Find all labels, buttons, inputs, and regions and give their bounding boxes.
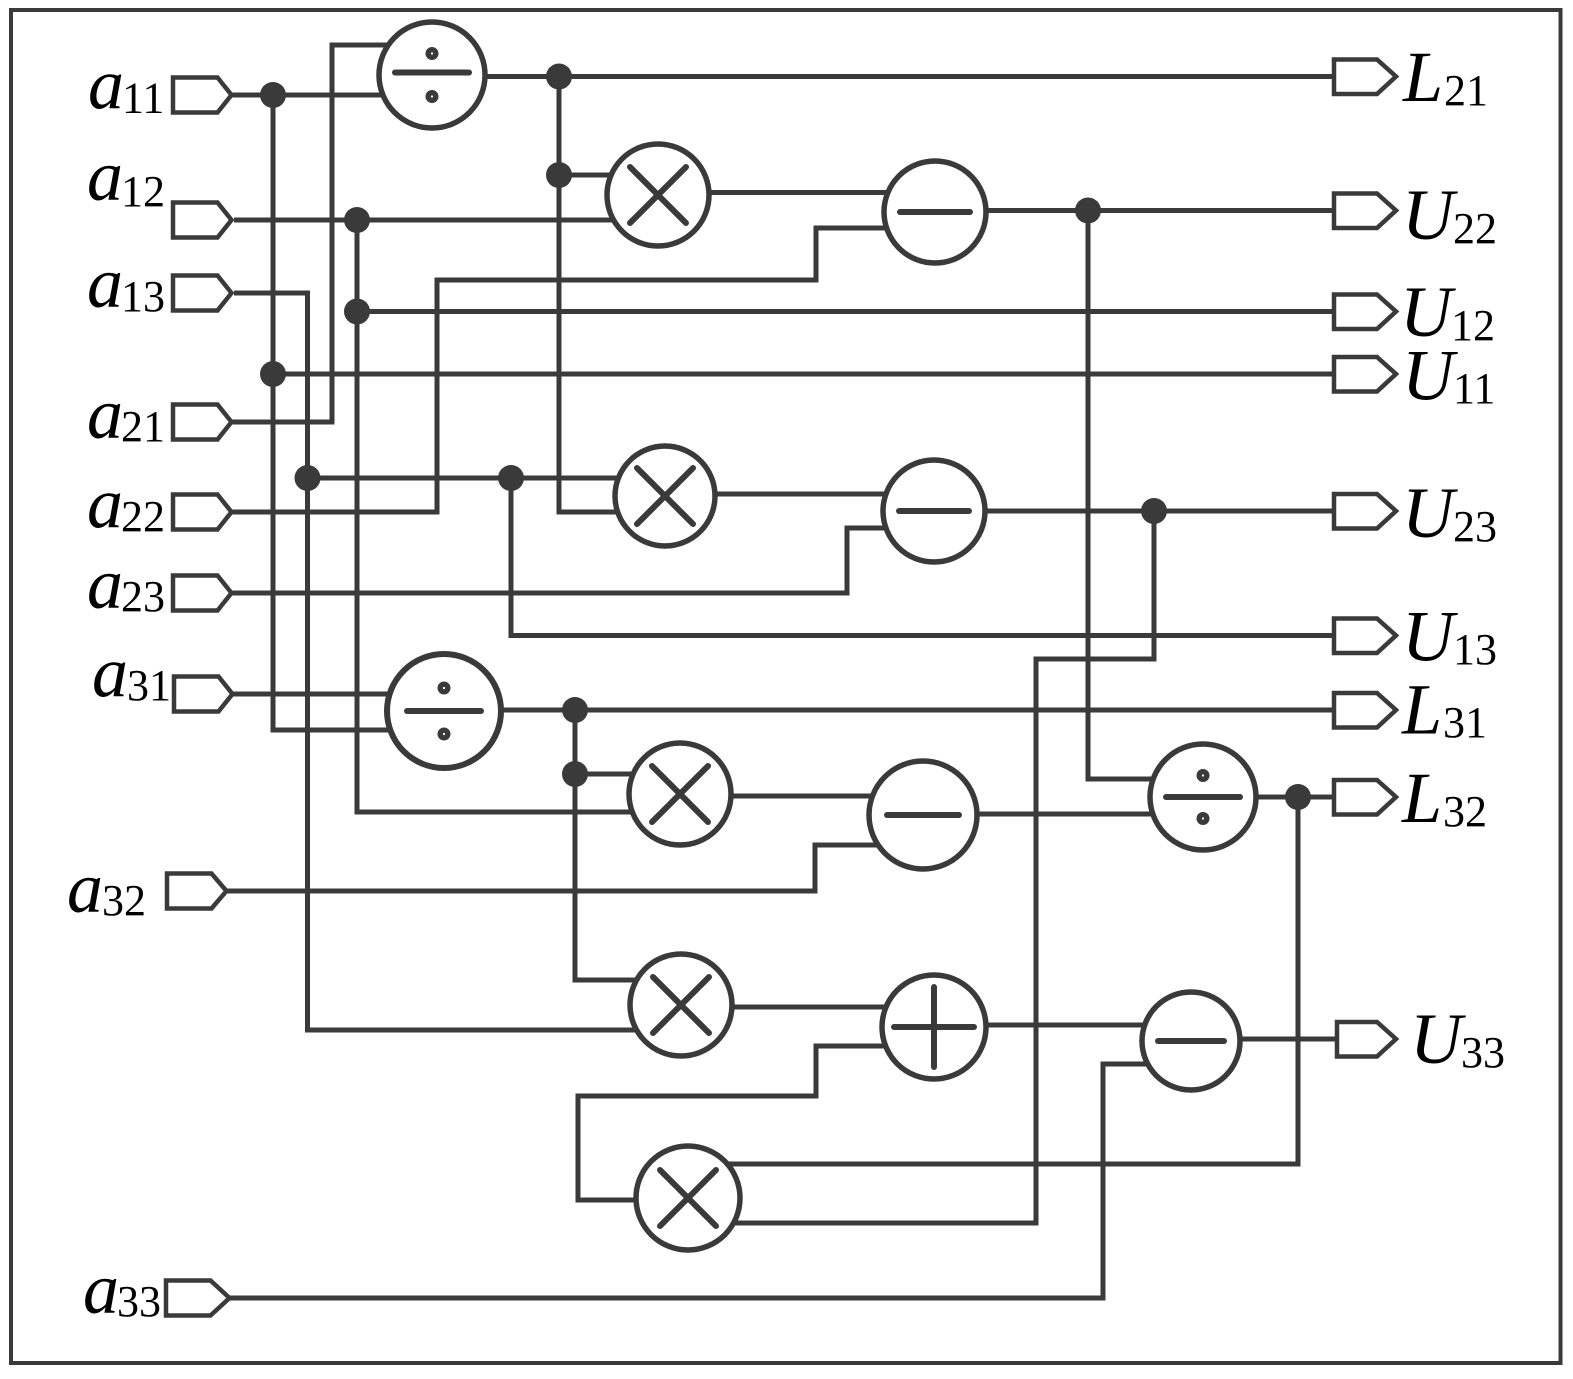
wire a11 vertical down to divider D2 <box>273 95 420 730</box>
input port a23 <box>173 576 232 611</box>
junction node U12 branch <box>344 299 370 325</box>
junction node U13 branch <box>498 465 524 491</box>
wire L31 line <box>480 708 1340 713</box>
wire L21 vertical <box>557 77 562 176</box>
output port U33 <box>1337 1022 1396 1057</box>
wire a11 horizontal to divider D1 <box>232 93 411 98</box>
output port U13 <box>1334 619 1396 654</box>
wire a12 vertical down to multiplier M3 <box>357 220 650 812</box>
wire a12 horizontal to multiplier M1 <box>234 218 625 223</box>
multiplier M5 <box>636 1146 740 1250</box>
output port U12 <box>1334 295 1396 330</box>
svg-text:23: 23 <box>121 572 165 621</box>
svg-text:12: 12 <box>1451 301 1495 350</box>
svg-text:U: U <box>1410 999 1466 1079</box>
divider D2 <box>387 654 501 768</box>
junction node a11 tag <box>260 82 286 108</box>
wire multiplier M5 out to adder A1 <box>578 1046 900 1200</box>
wire U22 line <box>980 208 1340 213</box>
wire L21 line <box>460 74 1340 79</box>
junction node L32 output <box>1285 784 1311 810</box>
input port a11 <box>173 78 232 113</box>
output port L32 <box>1334 780 1396 815</box>
wire U13 line <box>511 478 1340 636</box>
svg-text:32: 32 <box>102 876 146 925</box>
junction node L31 output <box>562 697 588 723</box>
svg-text:a: a <box>88 45 124 125</box>
wire multiplier M3 out to subtractor S3 <box>720 794 890 799</box>
svg-text:L: L <box>1402 37 1443 117</box>
wire U23 down to multiplier M5 <box>710 511 1154 1223</box>
wire U11 line <box>273 372 1340 377</box>
input port a33 <box>166 1281 230 1316</box>
svg-text:31: 31 <box>127 661 171 710</box>
wire L32 down to multiplier M5 <box>710 797 1298 1164</box>
svg-text:a: a <box>87 374 123 454</box>
wire U12 line <box>357 309 1340 314</box>
svg-text:L: L <box>1401 670 1442 750</box>
output port U11 <box>1334 357 1396 392</box>
svg-text:a: a <box>67 848 103 928</box>
svg-text:a: a <box>87 243 123 323</box>
wire subtractor S3 out to divider D3 <box>970 812 1165 817</box>
wire multiplier M4 out to adder A1 <box>725 1005 900 1010</box>
wire U22 down to divider D3 <box>1088 211 1170 780</box>
wire a13 branch to multiplier M2 <box>308 476 636 481</box>
svg-text:11: 11 <box>122 74 164 123</box>
wire L21 to multiplier M1 <box>559 173 630 178</box>
output port U22 <box>1334 194 1396 229</box>
adder A1 <box>882 975 986 1079</box>
junction node U11 branch <box>260 361 286 387</box>
svg-text:32: 32 <box>1443 787 1487 836</box>
svg-text:U: U <box>1402 473 1458 553</box>
input port a22 <box>173 495 232 530</box>
wire adder A1 out to subtractor S4 <box>975 1023 1160 1028</box>
wire L32 line <box>1245 795 1340 800</box>
wire U33 line <box>1230 1037 1340 1042</box>
wire a21 up to divider D1 <box>232 45 406 422</box>
svg-text:L: L <box>1401 758 1442 838</box>
wire a13 to multiplier M4 <box>234 293 655 1030</box>
svg-text:21: 21 <box>1444 66 1488 115</box>
svg-text:33: 33 <box>117 1277 161 1326</box>
input port a21 <box>173 405 232 440</box>
svg-text:21: 21 <box>121 402 165 451</box>
input port a13 <box>173 276 232 311</box>
svg-text:U: U <box>1402 336 1458 416</box>
output port L21 <box>1334 60 1396 95</box>
input port a32 <box>167 874 227 909</box>
multiplier M4 <box>630 954 732 1056</box>
wire a33 to subtractor S4 <box>230 1064 1160 1298</box>
junction node a12 branch <box>344 207 370 233</box>
wire multiplier M1 out to subtractor S1 <box>700 190 900 195</box>
multiplier M3 <box>629 743 731 845</box>
wire L31 branch to multiplier M3 <box>575 772 650 777</box>
svg-text:a: a <box>87 544 123 624</box>
svg-text:a: a <box>83 1249 119 1329</box>
multiplier M2 <box>615 446 715 546</box>
svg-text:13: 13 <box>1453 625 1497 674</box>
wire a23 to subtractor S2 <box>232 528 901 593</box>
subtractor S4 <box>1142 992 1240 1090</box>
svg-text:a: a <box>87 136 123 216</box>
subtractor S1 <box>884 161 986 263</box>
junction node U23 output <box>1141 498 1167 524</box>
wire a22 to subtractor S1 <box>232 228 901 512</box>
svg-text:a: a <box>92 633 128 713</box>
svg-text:31: 31 <box>1443 698 1487 747</box>
subtractor S3 <box>869 761 977 869</box>
svg-text:13: 13 <box>121 272 165 321</box>
svg-text:23: 23 <box>1453 502 1497 551</box>
wire L21 down to multiplier M2 <box>559 175 640 512</box>
multiplier M1 <box>607 144 709 246</box>
output port U23 <box>1334 494 1396 529</box>
junction node L21 multiplier feed <box>546 162 572 188</box>
junction node U22 output <box>1075 198 1101 224</box>
junction node L31 multiplier feed <box>562 761 588 787</box>
junction node L21 output <box>546 64 572 90</box>
subtractor S2 <box>883 460 985 562</box>
svg-text:12: 12 <box>121 167 165 216</box>
svg-text:a: a <box>87 464 123 544</box>
divider D3 <box>1150 744 1256 850</box>
input port a12 <box>173 203 232 238</box>
svg-text:U: U <box>1402 597 1458 677</box>
wire a32 to subtractor S3 <box>227 845 890 891</box>
wire U23 line <box>980 509 1340 514</box>
wire multiplier M2 out to subtractor S2 <box>710 492 900 497</box>
svg-text:22: 22 <box>121 492 165 541</box>
svg-text:11: 11 <box>1453 364 1495 413</box>
svg-text:22: 22 <box>1453 204 1497 253</box>
divider D1 <box>379 22 485 128</box>
wire a31 to divider D2 <box>233 692 421 697</box>
svg-text:33: 33 <box>1461 1028 1505 1077</box>
junction node a13 branch <box>295 465 321 491</box>
output port L31 <box>1334 693 1396 728</box>
input port a31 <box>174 677 233 712</box>
svg-text:U: U <box>1402 175 1458 255</box>
wire L31 down to multiplier M4 <box>575 710 655 980</box>
